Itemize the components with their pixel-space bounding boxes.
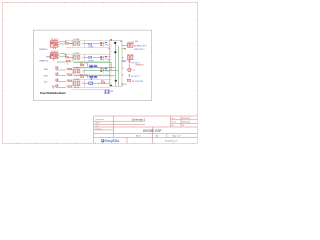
- svg-text:Power Distribution Board: Power Distribution Board: [40, 91, 66, 95]
- optocoupler U1: [50, 39, 60, 49]
- gnd labels: [104, 92, 109, 95]
- pin tick bottom right of header: [122, 84, 124, 85]
- pin tick out2: [124, 48, 125, 50]
- wire D2 to header: [93, 56, 103, 58]
- wire U6 down: [128, 63, 130, 68]
- svg-text:DRONE ESP: DRONE ESP: [143, 129, 162, 133]
- resistor R9: [67, 60, 71, 65]
- wire U2 out: [59, 54, 73, 58]
- resistor R11: [101, 81, 105, 84]
- svg-text:Drawn:: Drawn:: [171, 122, 177, 124]
- red bits under U6: [129, 60, 131, 62]
- junction diamond 2: [114, 51, 117, 54]
- wire D1 to header: [93, 42, 103, 44]
- easyeda logo: [101, 139, 120, 143]
- svg-text:VCC: VCC: [105, 71, 110, 73]
- junction diamond 5: [110, 84, 112, 86]
- ground symbol 2: [107, 90, 109, 93]
- sheet frame border: [2, 2, 197, 143]
- junction diamond 1: [114, 42, 117, 45]
- pin ticks row2: [103, 56, 104, 60]
- pin numbers row2: [100, 56, 102, 60]
- svg-text:Sheet: Sheet: [95, 122, 100, 125]
- svg-text:2023-05-20: 2023-05-20: [182, 118, 190, 120]
- input pin row C: [44, 78, 72, 83]
- svg-text:K2 SRD: K2 SRD: [73, 53, 80, 55]
- svg-text:PWM2: PWM2: [46, 57, 52, 59]
- svg-text:5V OUT 3: 5V OUT 3: [131, 76, 139, 78]
- svg-text:5V OUT ESP: 5V OUT ESP: [132, 81, 144, 83]
- input pin row D: [52, 84, 72, 88]
- svg-text:1.0: 1.0: [182, 125, 184, 127]
- input pin row A: [44, 66, 72, 71]
- svg-text:OUT 4: OUT 4: [74, 87, 79, 89]
- net label row2 GND: [105, 55, 107, 58]
- svg-text:C5: C5: [133, 70, 135, 72]
- wire header out2: [122, 48, 126, 50]
- module box row2: [66, 54, 110, 61]
- svg-text:IN C: IN C: [44, 81, 48, 83]
- header J1 tall connector: [110, 41, 122, 87]
- voltage regulator U6: [127, 54, 134, 59]
- diode D2: [88, 57, 93, 63]
- svg-text:D2 M7: D2 M7: [88, 60, 93, 62]
- relay K4: [73, 79, 83, 89]
- wire K3 to header: [84, 69, 118, 71]
- pin ticks header right: [108, 57, 123, 76]
- capacitor C6 tick: [128, 74, 130, 77]
- svg-text:1k: 1k: [67, 63, 69, 65]
- frame ruler ticks right: [197, 20, 198, 114]
- title block lines: [94, 116, 198, 143]
- frame ruler ticks top: [6, 2, 181, 3]
- svg-text:C1: C1: [84, 62, 86, 64]
- frame ruler ticks bottom: [17, 143, 193, 144]
- capacitor C5: [127, 68, 135, 71]
- module box row1: [66, 40, 110, 47]
- junction diamond 4: [115, 80, 118, 83]
- wire K2 to D2: [84, 56, 89, 58]
- svg-text:Revision: Revision: [95, 128, 102, 130]
- wire K1 to D1: [84, 42, 89, 44]
- junction diamond 3: [108, 47, 109, 49]
- rc group row4: [74, 74, 116, 79]
- svg-text:EasyEDA: EasyEDA: [105, 139, 120, 143]
- pin numbers row1: [100, 42, 102, 46]
- wire header to row4 comp: [122, 83, 127, 85]
- resistor R2: [65, 55, 69, 58]
- svg-text:C2: C2: [84, 74, 86, 76]
- svg-text:+BATT: +BATT: [121, 60, 128, 63]
- svg-text:K1 SRD: K1 SRD: [73, 39, 80, 41]
- pin ticks row3: [103, 68, 104, 72]
- svg-text:A4: A4: [156, 134, 158, 137]
- wire header to U5: [122, 45, 126, 47]
- bus wire vertical B: [117, 46, 119, 86]
- svg-text:Schematic 1: Schematic 1: [132, 119, 146, 122]
- svg-text:LM7805CT: LM7805CT: [135, 64, 145, 66]
- bus wire vertical A: [114, 44, 116, 86]
- optocoupler U2: [50, 51, 60, 60]
- net label row1 GND: [105, 41, 107, 44]
- relay K3: [73, 68, 83, 73]
- diode D4: [89, 82, 93, 84]
- header pin numbers: [110, 44, 111, 82]
- diode D1: [88, 44, 93, 49]
- pin numbers row3: [100, 68, 102, 72]
- svg-text:Title: Title: [95, 125, 98, 128]
- rc group row3: [74, 62, 116, 68]
- wire U1 out: [59, 42, 73, 44]
- svg-text:PWR OUT 2: PWR OUT 2: [134, 49, 144, 51]
- svg-text:Sheet: Sheet: [136, 134, 141, 137]
- svg-text:5V REG OUT 1: 5V REG OUT 1: [134, 46, 147, 48]
- wire D4 to header: [93, 82, 110, 84]
- svg-text:Rev:: Rev:: [171, 125, 175, 127]
- relay K2: [73, 53, 83, 59]
- frame ruler ticks left: [2, 20, 3, 114]
- svg-text:Page 1 of 1: Page 1 of 1: [172, 135, 181, 137]
- relay K1: [73, 39, 83, 45]
- wire row2 mid: [57, 61, 66, 63]
- ground symbol 1: [104, 90, 106, 93]
- svg-text:PWM IN 1: PWM IN 1: [39, 49, 48, 51]
- pin tick row4: [98, 82, 100, 84]
- schematic boundary rectangle: [33, 30, 151, 101]
- resistor R1: [65, 41, 73, 44]
- input pin row B: [44, 72, 72, 77]
- net label row3: [105, 67, 107, 70]
- svg-text:VCC: VCC: [105, 44, 110, 46]
- svg-text:GND: GND: [109, 91, 114, 93]
- svg-text:R2: R2: [65, 55, 67, 57]
- pin tick header top: [110, 39, 111, 41]
- module box row3: [73, 68, 110, 75]
- pin ticks row1: [103, 42, 104, 46]
- voltage regulator U5: [126, 42, 134, 48]
- component right row4: [127, 79, 144, 83]
- wire K4 to D4: [84, 82, 89, 84]
- svg-text:D1 M7: D1 M7: [88, 46, 93, 48]
- svg-text:PWM IN 2: PWM IN 2: [40, 61, 49, 63]
- module box row4: [73, 80, 110, 90]
- svg-text:Comments: Comments: [95, 118, 104, 121]
- svg-text:EasyEDA.com: EasyEDA.com: [165, 139, 178, 142]
- svg-text:2023-05-20: 2023-05-20: [182, 122, 190, 124]
